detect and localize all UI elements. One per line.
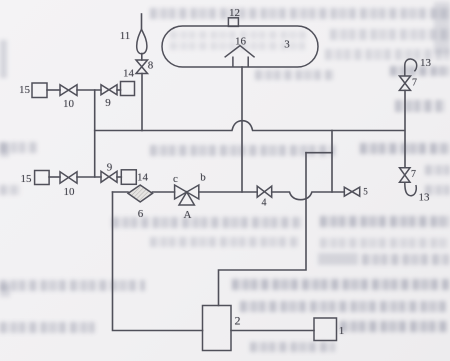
svg-text:7: 7 bbox=[412, 78, 417, 89]
valve 9 row2 bbox=[101, 171, 117, 182]
svg-text:A: A bbox=[184, 209, 192, 221]
wire tank outlet vertical bbox=[241, 67, 243, 192]
valve 4 bbox=[257, 186, 272, 197]
regulator 14 row1 bbox=[121, 82, 135, 96]
spray nozzle 16 tent bbox=[225, 46, 255, 58]
wire row1 mid: valve10a to valve9a bbox=[77, 89, 101, 91]
wire vent stub above teardrop 11 bbox=[141, 14, 143, 29]
svg-text:3: 3 bbox=[284, 39, 290, 51]
wire compressor2 to motor1 bbox=[231, 330, 314, 332]
wire valve8 drop to header bbox=[141, 74, 143, 131]
wire row2 mid: valve10b to valve9b bbox=[77, 176, 101, 178]
wire connector B to C bbox=[306, 152, 332, 154]
svg-text:6: 6 bbox=[138, 208, 144, 220]
valve 10 row2 bbox=[60, 172, 77, 183]
valve 10 row1 bbox=[60, 85, 77, 96]
svg-text:13: 13 bbox=[420, 57, 432, 69]
cylinder 15 row2 bbox=[35, 171, 50, 185]
wire row2 left: square15b to valve10b bbox=[49, 176, 60, 178]
svg-text:4: 4 bbox=[262, 198, 267, 209]
wire right column vertical bbox=[404, 90, 406, 167]
tank 3 (stadium vessel) bbox=[162, 26, 318, 67]
wire main pipe: elbow to filter6 bbox=[113, 191, 129, 193]
valve 9 row1 bbox=[101, 85, 117, 95]
svg-text:9: 9 bbox=[107, 162, 113, 174]
wire main pipe: valveA to valve4 bbox=[199, 191, 257, 193]
svg-text:11: 11 bbox=[120, 30, 131, 42]
three-way valve A bowtie bbox=[175, 185, 199, 199]
svg-text:15: 15 bbox=[21, 173, 33, 185]
ghost bleed-through text rows (decorative) bbox=[150, 8, 450, 19]
vent hook 13 top bbox=[405, 59, 417, 76]
valve 5 bbox=[344, 187, 359, 196]
svg-text:1: 1 bbox=[339, 325, 345, 337]
motor 1 bbox=[314, 318, 337, 341]
cylinder 15 row1 bbox=[32, 83, 47, 98]
svg-text:13: 13 bbox=[419, 192, 431, 204]
wire row2 right: valve9b to square14b bbox=[117, 176, 121, 178]
svg-text:10: 10 bbox=[64, 186, 76, 198]
flame arrestor 11 (teardrop) bbox=[137, 29, 147, 54]
wire left drop from main pipe to compressor 2 bbox=[113, 192, 203, 331]
vent hook 13 bottom bbox=[405, 182, 416, 196]
wire top header with hop over tank outlet bbox=[95, 121, 405, 131]
svg-text:b: b bbox=[200, 172, 206, 184]
svg-text:15: 15 bbox=[19, 84, 31, 96]
compressor 2 bbox=[203, 306, 232, 351]
valve 7 bottom (vertical) bbox=[400, 168, 411, 183]
wire vertical C down to compressor 2 bbox=[219, 153, 307, 306]
svg-text:7: 7 bbox=[411, 169, 416, 180]
svg-text:9: 9 bbox=[105, 97, 111, 109]
wire main pipe: valve4 to valve5 with dip under vertical C bbox=[272, 192, 345, 200]
svg-text:c: c bbox=[173, 173, 178, 185]
wire row1 right: valve9a to square14a bbox=[117, 89, 121, 91]
regulator 14 row2 bbox=[121, 170, 136, 185]
filter 6 (diamond) bbox=[128, 185, 153, 202]
three-way valve A bottom port bbox=[179, 192, 194, 205]
svg-text:2: 2 bbox=[235, 314, 241, 328]
wire teardrop to valve8 bbox=[141, 54, 143, 61]
wire vertical B header to pipe bbox=[331, 131, 333, 193]
svg-text:10: 10 bbox=[63, 98, 75, 110]
fitting 12 on tank top bbox=[228, 18, 238, 27]
svg-text:14: 14 bbox=[137, 172, 149, 184]
spray nozzle 16 riser right bbox=[247, 57, 249, 68]
valve 8 (vertical) bbox=[136, 60, 148, 74]
svg-text:14: 14 bbox=[123, 68, 135, 80]
svg-text:8: 8 bbox=[148, 60, 154, 72]
wire row1 left: square15a to valve10a bbox=[47, 89, 60, 91]
spray nozzle 16 riser left bbox=[232, 57, 234, 68]
svg-text:16: 16 bbox=[235, 36, 247, 48]
svg-text:5: 5 bbox=[363, 187, 368, 197]
valve 7 top (vertical) bbox=[399, 76, 410, 90]
wire main pipe: filter6 to valveA bbox=[153, 191, 175, 193]
wire left manifold vertical bbox=[94, 90, 96, 177]
svg-text:12: 12 bbox=[229, 7, 240, 19]
